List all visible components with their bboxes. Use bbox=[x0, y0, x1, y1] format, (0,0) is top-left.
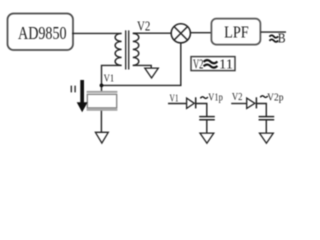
svg-text:V2: V2 bbox=[232, 92, 243, 103]
svg-text:AD9850: AD9850 bbox=[18, 23, 67, 43]
svg-text:V2p: V2p bbox=[267, 92, 283, 103]
svg-text:V2: V2 bbox=[137, 19, 150, 34]
svg-text:V2: V2 bbox=[193, 57, 203, 72]
svg-text:V1: V1 bbox=[104, 73, 115, 85]
svg-text:V1p: V1p bbox=[208, 92, 223, 103]
svg-text:11: 11 bbox=[219, 57, 233, 72]
svg-text:LPF: LPF bbox=[224, 22, 249, 41]
svg-text:V1: V1 bbox=[170, 94, 179, 105]
svg-text:B: B bbox=[278, 31, 286, 46]
